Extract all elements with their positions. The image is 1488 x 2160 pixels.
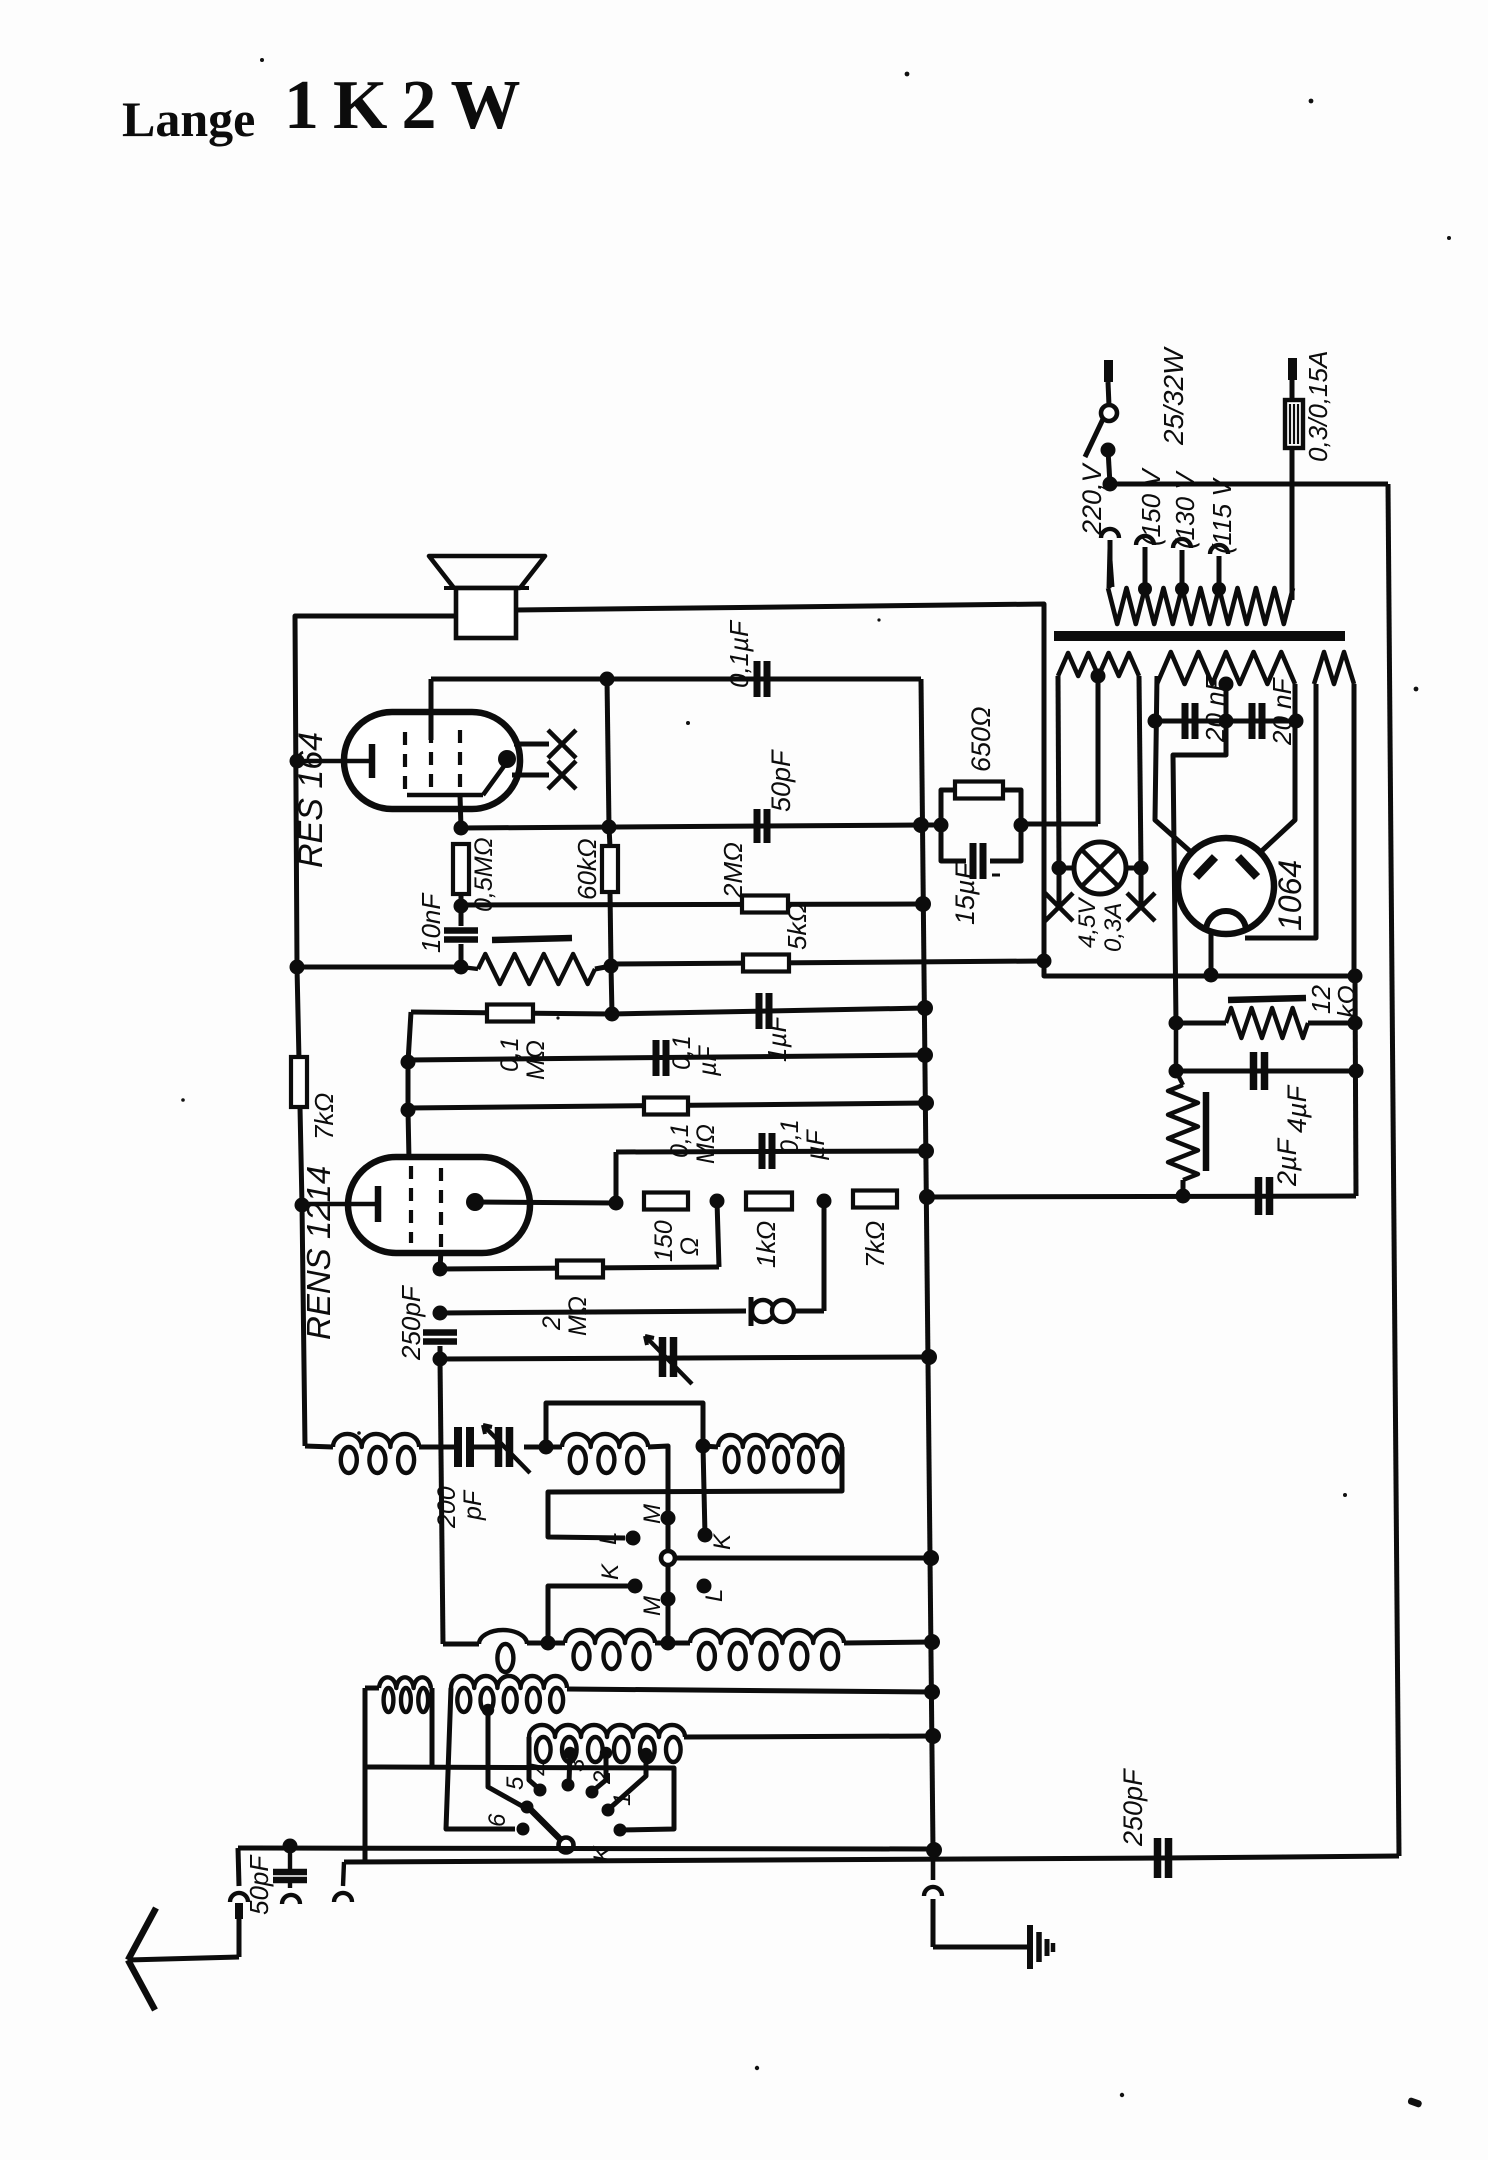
capacitor C 0,1uF top <box>757 661 767 697</box>
wire 60k bottom to grid row <box>611 966 612 1014</box>
node 650ohm right <box>1014 818 1029 833</box>
label 6 <box>484 1813 511 1827</box>
wire primary left end <box>1109 548 1110 588</box>
contact 4 <box>534 1784 547 1797</box>
resistor R 0,5Mohm <box>453 844 469 894</box>
node bus y904 <box>915 896 931 912</box>
node left rail y967 <box>290 960 305 975</box>
svg-text:M: M <box>639 1504 666 1524</box>
svg-text:50pF: 50pF <box>244 1854 274 1915</box>
node bus y825 <box>913 817 929 833</box>
label 0,1uF top <box>724 619 754 688</box>
contact L lower <box>697 1579 712 1594</box>
wire jog down <box>1044 961 1355 976</box>
wire HT left end to anode <box>1155 676 1200 860</box>
label 5kohm <box>782 903 812 950</box>
node bus y1736 <box>925 1728 941 1744</box>
resistor R 60kohm <box>602 846 618 892</box>
wire speaker right lead <box>516 604 1044 961</box>
node bus y1642 <box>924 1634 940 1650</box>
wire grid chain down <box>440 1359 443 1644</box>
node divider bottom <box>1176 1189 1191 1204</box>
wire 20nF mid jog to 12k chain <box>1173 721 1226 1023</box>
wire right edge mains return bus <box>1388 484 1399 1856</box>
svg-text:6: 6 <box>484 1813 511 1827</box>
wire coil3 right loop <box>548 1447 842 1538</box>
resistor R 650ohm <box>941 782 1021 826</box>
node lamp left <box>1052 861 1067 876</box>
svg-text:250pF: 250pF <box>396 1284 426 1361</box>
capacitor C 10nF <box>444 931 478 940</box>
node bus y1151 <box>918 1143 934 1159</box>
node 20nF row right <box>1289 714 1304 729</box>
label 12 kohm <box>1306 985 1362 1018</box>
svg-text:1kΩ: 1kΩ <box>751 1221 781 1268</box>
svg-text:µF: µF <box>802 1129 830 1161</box>
node 4uF left <box>1169 1064 1184 1079</box>
title text 1 K 2 W <box>284 67 521 144</box>
node 60k top row <box>602 820 617 835</box>
svg-text:1 K 2 W: 1 K 2 W <box>284 67 521 144</box>
wire heater center tap to 650ohm node <box>1096 676 1101 824</box>
title text Lange <box>122 91 255 147</box>
HT secondary winding <box>1157 652 1295 684</box>
label 4 <box>527 1763 554 1776</box>
label 5 <box>502 1776 529 1790</box>
transformer core <box>1054 631 1345 641</box>
svg-text:kΩ: kΩ <box>1332 985 1362 1018</box>
svg-text:50pF: 50pF <box>766 749 796 812</box>
anode plate RES164 <box>407 750 516 795</box>
wire pivot to bus <box>676 1556 931 1561</box>
node grid row x607 <box>600 672 615 687</box>
node bus y1197 <box>919 1189 935 1205</box>
node heater winding center tap <box>1091 669 1106 684</box>
node L9 tap3 <box>640 1748 652 1760</box>
wire heater winding right end down <box>1139 676 1141 868</box>
capacitor C 50pF antenna <box>273 1846 307 1880</box>
contact M upper <box>661 1511 676 1526</box>
wire 4uF row <box>1176 1069 1356 1074</box>
label 2uF <box>1272 1137 1302 1187</box>
cathode bar RENS1214 <box>302 1186 378 1222</box>
label 1uF <box>762 1015 792 1062</box>
speaker <box>429 556 545 638</box>
coil L6 long <box>690 1630 844 1669</box>
wire filament winding right end down <box>1352 684 1357 977</box>
bracket over coil2 <box>546 1403 703 1447</box>
node 12k right <box>1348 1016 1363 1031</box>
node 12k left <box>1169 1016 1184 1031</box>
coil L8 antenna primary 2 <box>451 1676 567 1712</box>
wire 1064 filament lead down <box>1209 933 1214 977</box>
node y1062 <box>401 1055 416 1070</box>
label K upper <box>709 1533 736 1550</box>
wire 650ohm to heater tap <box>1021 822 1098 827</box>
label 4,5V 0,3A <box>1074 897 1127 952</box>
anode dot RENS1214 <box>466 1193 484 1211</box>
detector tube U3 RENS1214 envelope <box>348 1157 530 1253</box>
coil L2 grid <box>546 1434 648 1473</box>
node coil3 left <box>696 1439 711 1454</box>
wire pot to 5k <box>595 966 611 969</box>
label 0,1Mohm second <box>666 1123 720 1164</box>
wire anode row y826 <box>461 825 921 828</box>
wire 2Mohm gridleak row <box>440 1267 719 1269</box>
fuse Si 0,3/0,15A <box>1285 358 1303 600</box>
wire anode row RENS <box>475 1202 616 1203</box>
wire trimmer to coil2 <box>524 1445 546 1450</box>
filament arc of 1064 <box>1206 911 1246 931</box>
label 50pF antenna <box>244 1854 274 1915</box>
resistor R 7kohm vertical <box>291 1057 307 1107</box>
svg-text:1064: 1064 <box>1272 860 1308 931</box>
label 3 <box>563 1758 590 1772</box>
wire 10nF to pot row <box>459 944 464 967</box>
grid dashed RENS1214 <box>411 1166 441 1248</box>
slider bar of 12kohm <box>1228 998 1306 1000</box>
node bus y1008 <box>917 1000 933 1016</box>
svg-text:MΩ: MΩ <box>692 1124 720 1164</box>
wire coil row2 to bus <box>844 1642 932 1643</box>
svg-text:7kΩ: 7kΩ <box>860 1221 890 1268</box>
node tuning row <box>433 1352 448 1367</box>
svg-text:220,V: 220,V <box>1077 461 1107 536</box>
contact L upper <box>626 1531 641 1546</box>
node mains switch junction <box>1103 477 1118 492</box>
svg-text:2: 2 <box>538 1316 566 1331</box>
capacitor C 250pF grid <box>423 1333 457 1342</box>
wire x616 drop <box>614 1152 619 1203</box>
svg-text:1: 1 <box>609 1793 636 1806</box>
tap hook C150V <box>1136 536 1154 596</box>
coil L9 rotary <box>529 1725 685 1762</box>
wire tap3 to contact1 <box>610 1754 646 1808</box>
node speaker feed junction <box>1037 954 1052 969</box>
wire grid row RES164 <box>431 677 921 682</box>
svg-text:0,1µF: 0,1µF <box>724 619 754 688</box>
wire L9 left to contact4 <box>529 1737 538 1788</box>
node L9 tap1 <box>564 1747 576 1759</box>
node pot right <box>604 959 619 974</box>
terminal X lamp left <box>1045 868 1073 921</box>
wire HT right end to anode <box>1252 684 1295 860</box>
contact 5 <box>521 1801 534 1814</box>
label 20 nF left <box>1200 673 1230 743</box>
resistor R 12kohm <box>1176 1008 1355 1038</box>
label M upper <box>639 1504 666 1524</box>
wire L8 tap to contact5 <box>488 1710 522 1806</box>
chassis socket below bus <box>924 1850 1028 1947</box>
label 0,1Mohm first <box>496 1037 550 1080</box>
node right rail top <box>1348 969 1363 984</box>
svg-text:µF: µF <box>694 1045 722 1077</box>
label 0,5Mohm <box>470 837 498 912</box>
svg-text:0,5MΩ: 0,5MΩ <box>470 837 498 912</box>
wire 2uF row <box>924 1196 1356 1197</box>
resistor R 150ohm <box>644 1193 688 1210</box>
node 4uF right <box>1349 1064 1364 1079</box>
coil L5 medium <box>527 1630 690 1669</box>
output tube U1 RES164 envelope <box>344 712 520 809</box>
resistor R 2Mohm <box>742 896 788 913</box>
wire K upper lead <box>703 1446 705 1535</box>
svg-text:L: L <box>595 1532 622 1545</box>
terminal X speaker upper <box>514 730 576 758</box>
wire mains feed to right bus <box>1110 482 1388 487</box>
svg-text:0,1: 0,1 <box>668 1035 696 1070</box>
wire 150-1k junction drop <box>717 1201 719 1267</box>
node anode row x616 <box>609 1196 624 1211</box>
label 2 <box>589 1771 616 1785</box>
label 7kohm anode <box>860 1221 890 1268</box>
svg-text:7kΩ: 7kΩ <box>309 1093 339 1140</box>
svg-text:150: 150 <box>650 1220 678 1262</box>
label 15uF <box>950 861 980 925</box>
transformer primary winding <box>1108 588 1293 624</box>
label C150 V <box>1136 467 1166 546</box>
svg-text:Lange: Lange <box>122 91 255 147</box>
label 2 Mohm gridleak <box>538 1296 592 1336</box>
grid dashed RES164 <box>405 730 460 795</box>
svg-text:25/32W: 25/32W <box>1158 346 1189 446</box>
node x612 y1014 <box>605 1007 620 1022</box>
contact 2 <box>586 1786 599 1799</box>
wire K rotary bracket <box>365 1767 674 1830</box>
wire antenna rail <box>238 1848 933 1849</box>
rectifier tube U2 1064 envelope <box>1178 838 1274 934</box>
vertical wire 60kohm branch <box>607 679 611 966</box>
svg-text:(150 V: (150 V <box>1136 467 1166 546</box>
capacitor C 0,1uF third <box>762 1133 772 1169</box>
rectifier filament winding <box>1314 652 1354 684</box>
label 650 ohm <box>966 706 996 772</box>
terminal X lamp right <box>1127 868 1155 921</box>
capacitor C 4uF <box>1254 1052 1265 1090</box>
tap hook 220V <box>1101 529 1119 587</box>
svg-text:0,3/0,15A: 0,3/0,15A <box>1303 351 1333 462</box>
label L upper <box>595 1532 622 1545</box>
wire tap2 to contact2 <box>594 1753 606 1790</box>
node y1313 <box>433 1306 448 1321</box>
svg-text:2MΩ: 2MΩ <box>718 842 748 899</box>
svg-text:L: L <box>701 1589 728 1602</box>
node row2 x548 <box>541 1636 556 1651</box>
wire coil2 right corner <box>648 1446 668 1518</box>
label 0,3/0,15A <box>1303 351 1333 462</box>
node lamp right <box>1134 861 1149 876</box>
switch S1 220V mains switch <box>1085 360 1117 484</box>
wire bus to 650ohm <box>921 823 941 828</box>
phone jack fA <box>751 1297 824 1326</box>
contact K rotary <box>614 1824 627 1837</box>
capacitor C 50pF <box>757 809 767 843</box>
wire tuning row <box>440 1357 929 1359</box>
resistor R 7kohm anode <box>853 1191 897 1208</box>
contact K upper <box>698 1528 713 1543</box>
svg-text:650Ω: 650Ω <box>966 706 996 772</box>
node bus bottom <box>926 1842 942 1858</box>
wire screen lead RES164 down <box>460 795 461 828</box>
label 220V <box>1077 461 1107 536</box>
coil L1 antenna <box>333 1434 419 1473</box>
wire AGC row y1058 <box>408 1055 925 1060</box>
wire output row jog <box>611 961 1044 964</box>
svg-text:M: M <box>639 1596 666 1616</box>
wire heater winding left end down <box>1058 676 1059 868</box>
node 650ohm left <box>934 818 949 833</box>
node below 0,5M <box>454 899 469 914</box>
label 150 ohm <box>650 1220 704 1262</box>
wire row y1151 <box>616 1151 926 1152</box>
wire 1uF row <box>612 1008 925 1014</box>
socket hook below 50pF <box>282 1880 300 1904</box>
label 10nF <box>416 892 446 953</box>
electrode anode left of 1064 <box>1196 857 1215 877</box>
coil L4 small <box>479 1630 527 1672</box>
resistor R 2Mohm gridleak <box>557 1261 603 1278</box>
wire L9 right to bus <box>684 1736 937 1737</box>
label 7kohm vertical <box>309 1093 339 1140</box>
node bus y1055 <box>917 1047 933 1063</box>
label RES 164 <box>292 732 330 868</box>
label RENS 1214 <box>300 1166 337 1340</box>
label C130 V <box>1170 470 1200 549</box>
slider bar of volume pot <box>492 938 572 940</box>
capacitor C 1uF <box>759 993 769 1029</box>
label K rotary <box>589 1845 616 1862</box>
resistor R 0,1Mohm second <box>644 1098 688 1115</box>
wire 20nF row <box>1155 719 1296 724</box>
coil L7 antenna primary <box>365 1677 431 1712</box>
capacitor C 2uF <box>1259 1177 1270 1215</box>
wire coil row2 left <box>443 1642 479 1647</box>
contact K lower <box>628 1579 643 1594</box>
wire tap1 to contact3 <box>569 1753 570 1783</box>
node anode node RES164 <box>454 821 469 836</box>
label 1064 <box>1272 860 1308 931</box>
wire jack up to 1k-7k junction <box>822 1201 827 1311</box>
tap hook C130V <box>1173 539 1191 596</box>
node RENS lower y1269 <box>433 1262 448 1277</box>
label 250pF grid <box>396 1284 426 1361</box>
label 0,1uF third <box>776 1119 830 1161</box>
label 25/32W <box>1158 346 1189 446</box>
svg-text:2µF: 2µF <box>1272 1137 1302 1187</box>
svg-text:Ω: Ω <box>676 1237 704 1256</box>
wire speaker left lead <box>295 616 456 1446</box>
node 20nF row mid <box>1219 714 1234 729</box>
slider bar of divider <box>1203 1092 1210 1171</box>
label 0,1uF second <box>668 1035 722 1077</box>
capacitor C 0,1uF second <box>656 1040 666 1076</box>
node coil2 left <box>539 1440 554 1455</box>
svg-text:2: 2 <box>589 1771 616 1785</box>
wire coil row1 left <box>305 1446 333 1447</box>
wire 0,5M to 10nF <box>459 894 464 926</box>
wire L8 left down to contact6 <box>446 1688 515 1829</box>
wire row to volume pot <box>297 965 461 970</box>
node x824 <box>817 1194 832 1209</box>
label K lower <box>597 1563 624 1580</box>
capacitor C 250pF antenna <box>1158 1838 1169 1878</box>
cathode bar RES164 <box>297 744 372 778</box>
wire earth rail <box>344 1856 1399 1862</box>
contact M lower <box>661 1592 676 1607</box>
capacitor C 20nF left <box>1185 703 1195 739</box>
wire HT center tap to 20nF node <box>1224 684 1229 721</box>
svg-text:10nF: 10nF <box>416 892 446 953</box>
svg-text:0,1: 0,1 <box>496 1037 524 1072</box>
contact 6 <box>517 1823 530 1836</box>
coil L3 shortwave <box>703 1435 842 1472</box>
variable capacitor main tuning <box>645 1336 692 1384</box>
svg-text:RENS 1214: RENS 1214 <box>300 1166 337 1340</box>
capacitor C 200pF <box>419 1427 498 1467</box>
node x717 <box>710 1194 725 1209</box>
svg-text:5kΩ: 5kΩ <box>782 903 812 950</box>
svg-text:4,5V: 4,5V <box>1074 897 1101 948</box>
heater winding 4,5V <box>1058 653 1139 676</box>
wire 250pF to tuning row <box>438 1346 443 1359</box>
label C115 V <box>1207 477 1237 554</box>
label 60kohm <box>572 838 602 900</box>
label 20 nF right <box>1267 676 1297 746</box>
node bus y1357 <box>921 1349 937 1365</box>
node cathode RES164 <box>290 754 305 769</box>
svg-text:K: K <box>597 1563 624 1580</box>
node L9 tap2 <box>600 1747 612 1759</box>
label M lower <box>639 1596 666 1616</box>
variable trimmer capacitor <box>483 1425 530 1473</box>
svg-text:200: 200 <box>433 1486 461 1529</box>
antenna input socket <box>230 1848 248 1957</box>
node y1110 <box>401 1103 416 1118</box>
wire filament winding left end to tube <box>1245 684 1316 938</box>
node bus y1692 <box>924 1684 940 1700</box>
contact 1 <box>602 1804 615 1817</box>
wire row y1106 <box>408 1103 926 1108</box>
node 50pF antenna <box>283 1839 298 1854</box>
svg-text:60kΩ: 60kΩ <box>572 838 602 900</box>
node L8 tap <box>482 1704 494 1716</box>
node HT winding center tap <box>1219 677 1234 692</box>
label 200pF <box>433 1486 487 1529</box>
ground symbol <box>1030 1925 1053 1969</box>
label 2Mohm <box>718 842 748 899</box>
wire L8 right to bus <box>567 1689 932 1692</box>
wire central HT bus <box>921 679 933 1850</box>
svg-text:4µF: 4µF <box>1282 1084 1312 1133</box>
resistor R 1kohm <box>746 1193 792 1210</box>
wire right rail <box>1355 976 1356 1196</box>
wire L7 right end to K bracket <box>430 1688 435 1767</box>
node row2 x668 <box>661 1636 676 1651</box>
label 4uF <box>1282 1084 1312 1133</box>
wire control grid top lead RES164 <box>429 679 434 740</box>
svg-text:0,1: 0,1 <box>776 1119 804 1154</box>
capacitor C 15uF electrolytic <box>941 825 1021 879</box>
wire grid leak row y1012 <box>411 1012 612 1014</box>
node tap C150 <box>1146 588 1148 590</box>
label L lower <box>701 1589 728 1602</box>
potentiometer field divider <box>1168 1023 1198 1196</box>
wire RENS grid vertical <box>408 1012 411 1160</box>
svg-text:0,3A: 0,3A <box>1100 903 1127 952</box>
node rectifier cathode junction <box>1204 968 1219 983</box>
antenna symbol <box>128 1908 239 2010</box>
phone jack fA row <box>440 1311 746 1313</box>
